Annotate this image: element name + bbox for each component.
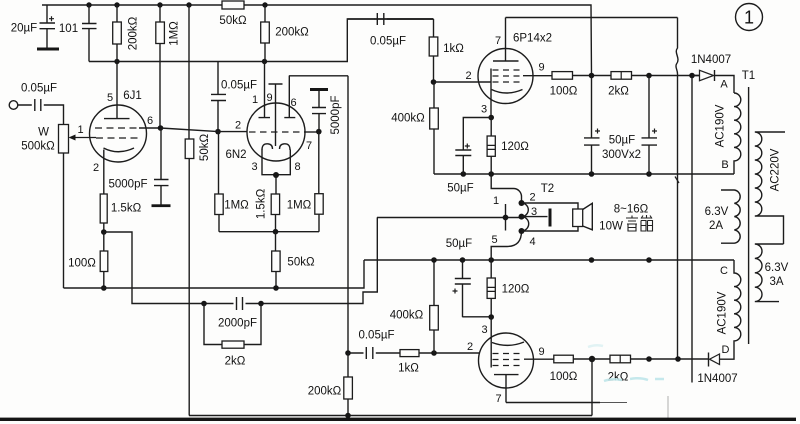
svg-text:5000pF: 5000pF [108,179,147,191]
wire feedback lower [104,218,521,304]
svg-text:2A: 2A [709,220,723,232]
transformer T1 winding AC190V upper [734,93,741,174]
wire ground bus y288 [64,260,365,288]
svg-text:AC190V: AC190V [715,104,727,147]
svg-text:2kΩ: 2kΩ [608,372,629,384]
svg-text:500kΩ: 500kΩ [21,141,55,153]
transformer T2 exit [491,231,521,260]
tube 6J1 cathode [104,148,135,152]
svg-text:7: 7 [495,393,501,405]
tube 6P14 upper grid bar [490,69,492,118]
svg-text:9: 9 [266,92,272,104]
svg-text:0.05µF: 0.05µF [21,83,57,95]
wire plate lower run faded [600,402,627,404]
resistor R 2k upper [611,72,699,80]
capacitor 50uF filter 1 [584,76,600,175]
svg-text:2: 2 [529,192,535,204]
svg-text:1: 1 [77,124,83,136]
label 6.3V 3A [765,262,789,288]
capacitor 2000pF [237,297,243,310]
resistor R 120 lower [487,260,495,317]
wire 6J1 plate-out pin6 [139,127,161,129]
svg-text:3: 3 [251,161,257,173]
node y232 bus [273,229,279,235]
resistor R 1.5k 6N2 [271,194,279,232]
svg-text:6J1: 6J1 [123,90,142,102]
wire 6N2 cathode bus y232 [219,231,319,233]
svg-text:2: 2 [93,162,99,174]
capacitor 50uF upper cathode [455,118,491,175]
svg-text:400kΩ: 400kΩ [391,113,425,125]
tube 6N2 grid dashes [249,131,304,133]
tube 6P14 lower grid bar [490,317,492,368]
svg-text:300Vx2: 300Vx2 [602,149,641,161]
wire y62 rail [89,19,434,62]
wire top B+ bus [42,5,592,75]
resistor R 200k second [261,5,270,62]
wire T2 tap2 to speaker [522,203,579,231]
svg-text:50µF: 50µF [609,135,635,147]
node B+ top right [589,73,595,79]
svg-text:2: 2 [467,341,473,353]
svg-text:6: 6 [147,115,153,127]
node T2 taps [519,200,525,234]
svg-text:6N2: 6N2 [225,149,246,161]
node 6J1 cathode bottom [101,229,107,235]
transformer T2 entry [491,174,521,203]
resistor R 400k lower [430,260,439,353]
hop tick at 678 174 [675,177,679,184]
svg-text:1: 1 [252,94,258,106]
svg-text:50µF: 50µF [446,238,472,250]
svg-text:5000pF: 5000pF [330,95,342,134]
capacitor 0.05uF lower coupling [348,347,400,359]
svg-text:W: W [38,127,49,139]
tube 6J1 envelope [90,105,147,162]
node fb left [201,301,207,307]
svg-text:0.05µF: 0.05µF [358,330,394,342]
capacitor 0.05uF 6N2 coupling [211,62,226,132]
svg-text:9: 9 [538,62,544,74]
node cathode lower [488,314,494,320]
tube 6P14 lower grid dashes [493,354,524,366]
svg-text:200kΩ: 200kΩ [275,27,309,39]
wire 6N2 cathode join [262,150,290,195]
wire bus vertical x677 with hop [676,18,678,360]
speaker [573,203,593,230]
resistor R 1M a [215,132,223,232]
resistor R 2k lower [610,355,709,363]
resistor R 120 upper [487,118,495,175]
svg-text:20µF: 20µF [11,23,37,35]
svg-text:3: 3 [531,206,537,218]
svg-text:100Ω: 100Ω [550,371,578,383]
svg-text:100Ω: 100Ω [68,258,96,270]
tube 6P14 upper plate [493,18,519,62]
svg-text:2000pF: 2000pF [218,318,257,330]
wire bleeder vertical x189 [189,5,592,416]
svg-text:1kΩ: 1kΩ [443,43,464,55]
svg-text:9: 9 [538,346,544,358]
svg-text:A: A [720,79,728,91]
circled number 1 [736,4,763,31]
svg-text:1MΩ: 1MΩ [169,21,181,46]
svg-text:0.05µF: 0.05µF [370,36,406,48]
tube 6P14 upper cathode [492,90,523,94]
svg-text:8~16Ω: 8~16Ω [614,204,649,216]
svg-text:50µF: 50µF [447,183,473,195]
node grid lower 6P14 [431,350,437,356]
node output join lower [589,356,595,362]
svg-text:200kΩ: 200kΩ [128,16,140,50]
svg-text:50kΩ: 50kΩ [199,134,211,162]
resistor R 2k feedback loop [204,304,261,349]
wire T2 tap3 terminal [522,209,552,227]
svg-text:T1: T1 [742,70,755,82]
node y415 [345,413,351,419]
svg-text:3A: 3A [769,276,783,288]
svg-text:0.05µF: 0.05µF [221,80,257,92]
svg-text:D: D [722,344,730,356]
wire 6J1 to 6N2 grid [161,128,248,132]
capacitor 0.05uF top coupling [347,13,433,25]
transformer T1 winding 6.3V 2A [721,190,740,243]
capacitor 101 [82,5,97,62]
node 6N2 right pin7 [316,129,322,135]
svg-text:4: 4 [529,236,535,248]
capacitor 5000pF second [310,88,328,132]
node pin6 6J1 [158,125,164,131]
node 100 bottom [101,285,107,291]
node T2 center tap [503,215,509,221]
svg-text:400kΩ: 400kΩ [390,310,424,322]
svg-text:101: 101 [59,23,78,35]
transformer T1 winding AC220V [755,132,785,244]
label 6.3V 2A [705,206,729,232]
resistor R 1M left [156,5,165,128]
resistor R 200k lower [344,353,353,416]
resistor R 1M b [315,132,323,232]
wire grid to top 6P14 [434,81,492,83]
resistor R 100 upper [552,72,611,80]
svg-text:100Ω: 100Ω [550,86,578,98]
node 6N2 grid [215,129,221,135]
svg-text:7: 7 [306,140,312,152]
svg-text:AC190V: AC190V [717,291,729,334]
svg-text:1: 1 [493,195,499,207]
tube 6P14 upper envelope [478,49,533,104]
svg-text:8: 8 [294,161,300,173]
node cathode upper [488,115,494,121]
svg-text:3: 3 [481,324,487,336]
transformer T2 winding bumps [522,203,529,231]
svg-text:1MΩ: 1MΩ [224,200,249,212]
input terminal [9,101,18,110]
svg-text:5: 5 [107,92,113,104]
tube 6P14 lower cathode [492,342,524,345]
svg-text:B: B [721,159,728,171]
node 50uF2 top [646,73,652,79]
resistor R 200k first [113,5,122,62]
resistor R 50k bleeder [185,139,194,159]
svg-text:6.3V: 6.3V [765,262,789,274]
resistor R 1.5k 6J1 cathode [100,194,107,232]
svg-text:6P14x2: 6P14x2 [513,33,552,45]
capacitor 50uF filter 2 [642,76,658,175]
svg-text:AC220V: AC220V [770,148,782,191]
svg-text:1.5kΩ: 1.5kΩ [256,188,268,219]
node dots rail y174 [461,171,652,177]
resistor R 400k top [430,82,439,174]
svg-text:2: 2 [465,70,471,82]
node dots lower rail [646,356,681,362]
svg-text:T2: T2 [541,183,554,195]
resistor R 50k series on bus [222,1,244,9]
svg-text:5: 5 [491,234,497,246]
potentiometer W 500k [59,125,97,289]
tube 6N2 pin9 heater bar [269,84,283,146]
tube 6P14 lower envelope [479,333,534,388]
wire 6N2 grid right to node [304,131,319,133]
wire screen out pin9 lower [524,358,554,360]
capacitor 0.05uF input [18,99,64,125]
svg-text:1.5kΩ: 1.5kΩ [111,203,142,215]
svg-text:6.3V: 6.3V [705,206,729,218]
transformer T1 core [748,87,750,344]
svg-text:200kΩ: 200kΩ [308,386,342,398]
wire 6J1 cathode pin2 [103,150,105,195]
tube 6P14 upper grid dashes [493,70,524,82]
svg-text:2kΩ: 2kΩ [608,86,629,98]
transformer T1 winding AC190V lower [734,260,741,345]
capacitor 20uF electrolytic [37,5,59,51]
resistor R 1k lower horizontal [400,350,479,357]
node rectifier join top [689,73,695,79]
resistor R 100 lower [554,355,610,363]
capacitor 5000pF first [152,128,171,207]
resistor R 1k top vertical [429,19,438,82]
transformer T2 core bar [505,204,507,231]
svg-text:1kΩ: 1kΩ [398,363,419,375]
node fb right [258,301,264,307]
svg-text:50kΩ: 50kΩ [219,15,247,27]
svg-text:1: 1 [744,8,754,28]
resistor R 50k fb divider [272,232,280,288]
svg-text:2kΩ: 2kΩ [225,356,246,368]
svg-text:1MΩ: 1MΩ [287,200,312,212]
tube 6J1 grid dashes [95,128,139,138]
node bus junction dots [86,2,267,7]
svg-text:6: 6 [290,97,296,109]
tube 6N2 plate pin6 [284,76,348,118]
node grid junction top 6P14 [431,79,437,85]
wire lower join to bottom [591,359,593,416]
svg-text:3: 3 [481,104,487,116]
tube 6J1 plate [104,62,130,119]
node 50k fb bottom [273,285,279,291]
node dots rail y260 [431,257,652,263]
glyph yin xiang [626,215,653,231]
tube 6N2 plate pin1 [259,62,271,118]
svg-text:2: 2 [235,120,241,132]
watermark gray [624,396,668,420]
svg-text:120Ω: 120Ω [502,284,530,296]
bottom border [0,418,796,421]
svg-text:1N4007: 1N4007 [697,373,737,385]
watermark cyan [588,345,664,381]
capacitor 50uF lower cathode [453,260,492,317]
diode 1N4007 lower [709,345,735,367]
tube 6N2 envelope [247,103,305,161]
wire rail y260 [364,259,734,261]
svg-text:1N4007: 1N4007 [691,54,731,66]
wire plate lower run [506,402,600,404]
transformer T1 winding 6.3V 3A [755,244,784,302]
wire plate top run y17 [506,17,678,19]
svg-text:50kΩ: 50kΩ [287,257,315,269]
resistor R 100 left [100,232,108,288]
node dots on y62 rail [114,59,267,64]
diode 1N4007 upper [692,70,734,93]
tube 6P14 lower plate [494,375,519,403]
wire 6N2 plate2 drop x348 [347,76,349,353]
tube 6N2 cathodes [262,144,290,150]
svg-text:10W: 10W [599,221,623,233]
svg-text:7: 7 [495,35,501,47]
wire bus vertical x692 [691,76,693,383]
wire screen out pin9 upper [523,75,552,77]
wire ground rail y174 [434,173,734,175]
svg-text:120Ω: 120Ω [501,141,529,153]
svg-text:C: C [720,265,728,277]
node 6N2 cathode join [273,172,279,178]
node 200k3 top [345,350,351,356]
